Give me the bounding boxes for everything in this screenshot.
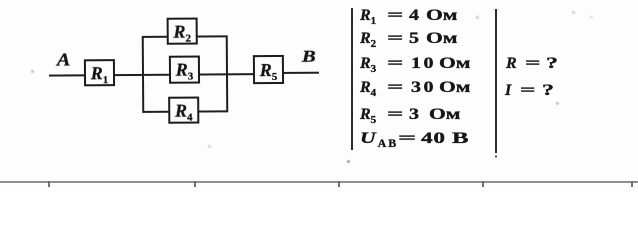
value UAB (360, 131, 463, 147)
scan speck (347, 160, 350, 163)
wire: right bus to R5 (228, 73, 254, 75)
wire: top branch right segment (198, 36, 228, 38)
scan speck (495, 155, 498, 158)
wire: top branch left segment (143, 36, 168, 38)
node A (57, 50, 71, 68)
table column divider 4 (482, 181, 484, 187)
resistor R1 (84, 59, 115, 86)
resistor R4 (168, 97, 199, 124)
resistor R2 (167, 18, 198, 45)
value R5 (360, 107, 452, 123)
wire: R5 to B (284, 71, 319, 73)
scan speck (572, 11, 575, 14)
value R2 (360, 31, 450, 47)
table column divider 5 (631, 181, 633, 187)
question R (506, 56, 554, 72)
scan speck (556, 102, 559, 105)
given-data divider right (495, 9, 497, 153)
wire: middle branch right segment (200, 73, 228, 75)
resistor R5 (253, 55, 284, 84)
value R4 (360, 80, 462, 96)
table column divider 3 (338, 181, 340, 187)
wire: R1 to left bus and on to R3 (115, 74, 170, 76)
resistor R3 (169, 56, 200, 84)
table column divider 1 (48, 181, 50, 187)
question I (505, 83, 550, 99)
value R1 (360, 8, 450, 24)
node B (302, 47, 316, 64)
scan speck (590, 16, 593, 18)
scan speck (208, 145, 211, 148)
wire: left parallel bus (142, 36, 145, 113)
table column divider 2 (194, 181, 196, 187)
value R3 (360, 56, 462, 72)
wire: bottom branch right segment (199, 110, 228, 112)
wire: right parallel bus (226, 35, 229, 113)
given-data divider left (351, 8, 353, 150)
wire: left lead from A to R1 (48, 74, 85, 76)
scan speck (476, 16, 479, 19)
wire: bottom branch left segment (143, 111, 169, 113)
table top border (0, 181, 638, 183)
scan speck (31, 70, 34, 73)
